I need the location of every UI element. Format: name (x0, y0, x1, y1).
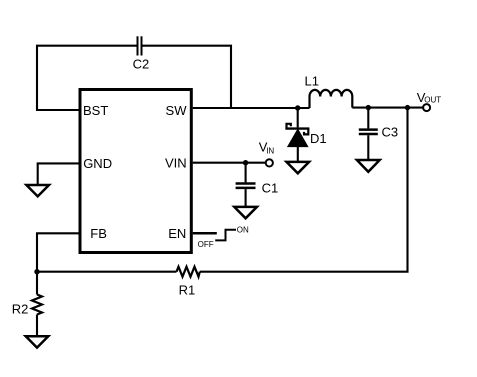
svg-text:OFF: OFF (198, 240, 214, 249)
node SW/D1 junction (295, 105, 300, 110)
capacitor C1 (236, 184, 256, 188)
svg-text:L1: L1 (305, 73, 319, 88)
wire C1 to ground (245, 189, 247, 207)
svg-text:D1: D1 (310, 131, 327, 146)
wire D1 to ground (297, 146, 299, 162)
wire C3 branch (367, 108, 369, 129)
wire VIN to C1 (245, 163, 247, 183)
wire EN stub (193, 232, 217, 235)
svg-text:R1: R1 (179, 283, 196, 298)
ground (R2) (26, 336, 49, 347)
wire C3 to ground (367, 135, 369, 160)
node VOUT terminal (423, 104, 430, 111)
wire FB net to R1 (37, 271, 177, 273)
node VIN terminal (266, 159, 273, 166)
svg-text:R2: R2 (12, 301, 29, 316)
node FB tap junction (405, 105, 410, 110)
svg-text:OUT: OUT (424, 95, 441, 104)
ground (C1) (234, 207, 257, 218)
VIN label (259, 140, 275, 156)
wire junction to R2 (36, 272, 38, 295)
capacitor C3 (359, 130, 378, 134)
svg-text:C3: C3 (382, 124, 399, 139)
node FB junction (34, 269, 39, 274)
capacitor C2 (138, 36, 142, 55)
inductor L1 (310, 90, 353, 108)
svg-text:GND: GND (83, 156, 112, 171)
svg-text:ON: ON (237, 225, 249, 234)
wire FB stub (37, 233, 80, 271)
resistor R2 (32, 295, 42, 315)
ground (D1) (287, 162, 310, 173)
svg-text:C2: C2 (133, 56, 150, 71)
wire GND pin stub (38, 163, 80, 185)
VOUT label (417, 90, 442, 105)
wire SW to D1 (297, 108, 299, 127)
svg-text:FB: FB (90, 226, 107, 241)
svg-text:EN: EN (168, 226, 186, 241)
ground (C3) (357, 160, 380, 172)
wire SW net to inductor (193, 107, 310, 109)
svg-text:SW: SW (166, 103, 188, 118)
node C3 junction (366, 105, 371, 110)
wire C2 right to SW net (143, 46, 232, 108)
svg-text:VIN: VIN (165, 155, 187, 170)
svg-text:BST: BST (83, 103, 108, 118)
svg-text:IN: IN (266, 146, 274, 155)
wire inductor to VOUT (352, 107, 423, 109)
svg-text:C1: C1 (262, 181, 279, 196)
diode D1 (schottky) (285, 124, 309, 147)
ON/OFF step waveform at EN (215, 230, 236, 241)
wire BST loop left vertical and top to C2 (37, 46, 137, 110)
wire R1 to FB tap (200, 108, 408, 272)
op-amp U1 (regulator IC body) (80, 90, 191, 253)
wire VIN pin to terminal (193, 162, 266, 164)
wire R2 to ground (36, 315, 38, 337)
node VIN/C1 junction (243, 160, 248, 165)
ground (GND pin) (26, 185, 49, 196)
resistor R1 (177, 267, 200, 277)
